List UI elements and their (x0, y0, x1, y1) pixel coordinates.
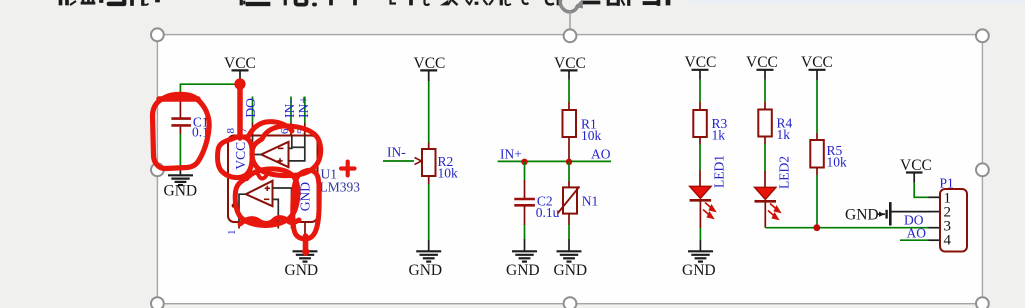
U1 bottom pins (239, 222, 305, 240)
svg-text:4: 4 (944, 232, 952, 248)
svg-text:GND: GND (845, 207, 879, 224)
connector P1 (929, 176, 968, 252)
svg-text:10k: 10k (438, 166, 459, 181)
wire VCC to R5 (816, 80, 818, 140)
ground symbol for U1 (293, 251, 318, 261)
svg-text:1k: 1k (712, 128, 726, 143)
power port VCC (U1 supply net) (224, 55, 256, 80)
capacitor C1 (171, 99, 208, 139)
svg-text:IN+: IN+ (296, 96, 311, 118)
ground symbol for R2 (416, 251, 441, 261)
power ground symbol near P1 (845, 202, 890, 225)
wire AO to P1 pin 4 (900, 239, 930, 241)
wire R2 to ground (428, 176, 430, 251)
red annotation: scribble along U1 bottom pins (240, 218, 299, 224)
selection handle mid-left (151, 163, 164, 176)
wire VCC to R2 (428, 81, 430, 149)
wire LED2 to DO net (764, 203, 766, 228)
svg-text:GND: GND (164, 183, 198, 200)
svg-text:GND: GND (285, 262, 319, 279)
svg-text:8: 8 (225, 128, 237, 134)
power port VCC (P1) (900, 157, 932, 183)
wire R1 to node (568, 137, 570, 161)
svg-text:GND: GND (682, 262, 716, 279)
wire R3 to LED1 (699, 137, 701, 186)
svg-text:1: 1 (226, 230, 238, 236)
wire LED1 to ground (699, 202, 701, 251)
junction C2 (521, 159, 527, 165)
wire IN- to R2 wiper with arrow (383, 158, 422, 165)
wire VCC to R4 (764, 80, 766, 110)
op-amp U1 LM393 body (228, 136, 360, 223)
wire VCC to R1 (568, 80, 570, 111)
resistor R5 (810, 140, 847, 170)
U1 top pins and dangling wires (240, 97, 305, 136)
power port VCC (R5) (801, 54, 833, 80)
red annotation: loop around U1 GND pin label (293, 170, 320, 239)
selection handle top-right (976, 29, 989, 42)
svg-text:GND: GND (409, 262, 443, 279)
ground symbol for C1 (168, 168, 193, 185)
wire VCC net to C1 and U1 pin 8 (180, 80, 240, 123)
potentiometer R2 (422, 149, 458, 181)
wire VCC to P1 pin 1 (914, 183, 929, 198)
power port VCC (R4) (746, 54, 778, 80)
red annotation: loop around C1 (153, 94, 210, 168)
red annotation: bridge stroke over U1 top (248, 122, 292, 137)
ground symbol for N1 (557, 251, 582, 261)
selection handle top-left (151, 28, 164, 41)
resistor R1 (563, 110, 602, 143)
junction R5/DO (813, 224, 820, 231)
red annotation: loop around comparator B (235, 169, 298, 225)
selection handle bottom-center (564, 297, 577, 308)
wire DO net horizontal to P1 (765, 227, 929, 229)
wires comparator B (239, 188, 292, 222)
comparator B triangle (bottom, points left) (246, 181, 273, 206)
svg-text:IN-: IN- (387, 145, 406, 160)
LED LED1 (690, 186, 715, 218)
svg-text:GND: GND (506, 262, 540, 279)
svg-text:10k: 10k (581, 128, 602, 143)
wire C2 to ground (524, 206, 526, 250)
svg-text:VCC: VCC (233, 142, 248, 170)
power port VCC (R2) (414, 55, 446, 81)
svg-text:1k: 1k (777, 127, 791, 142)
top pale strip (690, 0, 1025, 3)
power port VCC (R3) (685, 54, 717, 80)
svg-text:LED1: LED1 (712, 155, 727, 188)
LED LED2 (755, 187, 780, 219)
thermistor N1 (558, 187, 599, 214)
red annotation: stroke to U1 ground (302, 236, 309, 255)
resistor R4 (758, 110, 792, 143)
svg-text:N1: N1 (582, 193, 599, 208)
svg-text:GND: GND (554, 262, 588, 279)
ground symbol for C2 (512, 251, 537, 261)
junction R1/N1 (566, 159, 572, 165)
svg-text:VCC: VCC (685, 54, 717, 71)
wire C1 to ground (179, 134, 181, 168)
svg-text:0.1u: 0.1u (536, 205, 560, 220)
junction dot inside U1 (232, 203, 236, 207)
power port VCC (R1) (554, 55, 586, 80)
wire VCC to R3 (699, 80, 701, 111)
selection handle bottom-left (151, 297, 164, 308)
wire R5 to DO net (816, 168, 818, 228)
ground symbol for LED1 (688, 251, 713, 261)
comparator A triangle (top, points left) (261, 142, 288, 167)
wires comparator A (253, 136, 305, 161)
wire GND to P1 pin 2 (891, 211, 930, 213)
red annotation: loop around comparator A (252, 126, 321, 176)
svg-text:DO: DO (243, 98, 258, 118)
svg-text:LM393: LM393 (320, 180, 361, 195)
wire node to N1 (568, 162, 570, 188)
wire node to C2 (524, 162, 526, 198)
svg-text:10k: 10k (827, 155, 848, 170)
selection handle top-center (564, 29, 577, 42)
capacitor C2 (514, 193, 559, 220)
red annotation: loop around U1 VCC pin label (218, 137, 253, 178)
svg-text:LED2: LED2 (777, 156, 792, 189)
svg-text:AO: AO (591, 147, 611, 162)
white schematic sheet (157, 35, 982, 304)
red annotation: plus mark (341, 162, 355, 176)
selection handle mid-right (976, 163, 989, 176)
resistor R3 (693, 110, 727, 143)
wire U1 pin 4 to ground (304, 240, 306, 251)
svg-text:AO: AO (907, 226, 927, 241)
svg-text:IN-: IN- (282, 99, 297, 118)
rotate handle icon at top center (560, 0, 584, 35)
svg-text:VCC: VCC (746, 54, 778, 71)
red annotation: stroke over VCC wire to U1 (234, 78, 245, 138)
selection frame (157, 35, 982, 304)
svg-text:VCC: VCC (801, 54, 833, 71)
clipped Chinese title text fragments (59, 0, 670, 6)
wire N1 to ground (568, 214, 570, 251)
selection handle bottom-right (976, 297, 989, 308)
wire R4 to LED2 (764, 137, 766, 188)
svg-text:IN+: IN+ (500, 147, 522, 162)
node wire IN+ / AO (498, 160, 611, 162)
